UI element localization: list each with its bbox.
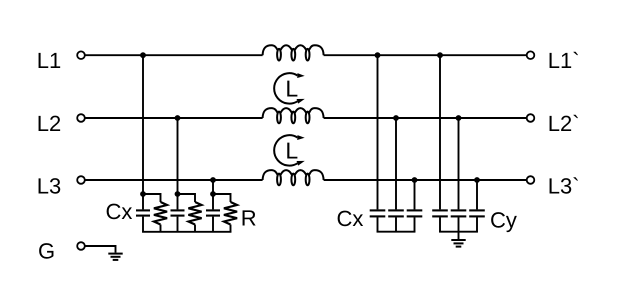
wire branch 2 vertical from L2 [177,118,179,194]
terminal G [77,242,85,250]
inductor L (line L3 winding) [263,170,324,185]
capacitor Cx1 (right group) from L1 [370,55,386,232]
svg-text:L3: L3 [37,173,61,198]
wire L3 right segment [324,179,527,181]
wire G to ground [85,246,115,253]
node branch 2 parallel junction [175,191,181,197]
svg-text:L3`: L3` [548,173,580,198]
resistor R1 (left group) [143,194,167,232]
capacitor Cx1 (left group) [136,194,150,232]
svg-text:L: L [285,138,298,164]
node junction right Cx on L3 [412,177,418,183]
svg-text:L2: L2 [37,111,61,136]
capacitor Cx2 (left group) [171,194,185,232]
terminal L3` (right) [527,176,535,184]
terminal L3 (left) [77,176,85,184]
svg-text:L1: L1 [37,48,61,73]
capacitor Cx2 (right group) from L2 [388,118,404,232]
node junction Cy on L1 [437,52,443,58]
wire L2 left segment [85,117,262,119]
terminal L2` (right) [527,114,535,122]
ground (below Cy) [451,232,465,247]
svg-text:L: L [285,75,298,101]
capacitor Cx3 (right group) from L3 [407,180,423,232]
capacitor Cx3 (left group) [206,194,220,232]
terminal L1` (right) [527,51,535,59]
terminal L1 (left) [77,51,85,59]
node junction Cy on L3 [474,177,480,183]
wire branch 3 vertical from L3 [212,180,214,194]
wire branch 1 vertical from L1 [142,55,144,194]
resistor R3 (left group) [213,194,237,232]
node junction Cy on L2 [456,115,462,121]
node junction on L3 [210,177,216,183]
svg-text:L2`: L2` [548,111,580,136]
node branch 1 parallel junction [140,191,146,197]
ground (G) [108,254,122,260]
core symbol L (arrow circle between L1 and L2) [274,73,305,104]
svg-text:Cx: Cx [337,206,364,231]
capacitor Cy2 from L2 [451,118,467,232]
svg-text:L1`: L1` [548,48,580,73]
wire right Cx bottom bar [377,231,416,233]
svg-text:Cx: Cx [106,199,133,224]
node junction right Cx on L1 [375,52,381,58]
inductor L (line L2 winding) [263,108,324,123]
wire L1 left segment [85,54,262,56]
wire L2 right segment [324,117,527,119]
svg-text:Cy: Cy [490,208,517,233]
node junction on L2 [175,115,181,121]
wire L3 left segment [85,179,262,181]
node junction on L1 [140,52,146,58]
capacitor Cy3 from L3 [469,180,485,232]
wire Cy bottom bar [439,231,478,233]
svg-text:G: G [38,238,55,263]
wire left group bottom bar [142,231,231,233]
node branch 3 parallel junction [210,191,216,197]
core symbol L (arrow circle between L2 and L3) [274,135,305,166]
resistor R2 (left group) [178,194,202,232]
node junction right Cx on L2 [393,115,399,121]
capacitor Cy1 from L1 [432,55,448,232]
terminal L2 (left) [77,114,85,122]
svg-text:R: R [241,206,257,231]
wire L1 right segment [324,54,527,56]
inductor L (line L1 winding) [263,45,324,60]
